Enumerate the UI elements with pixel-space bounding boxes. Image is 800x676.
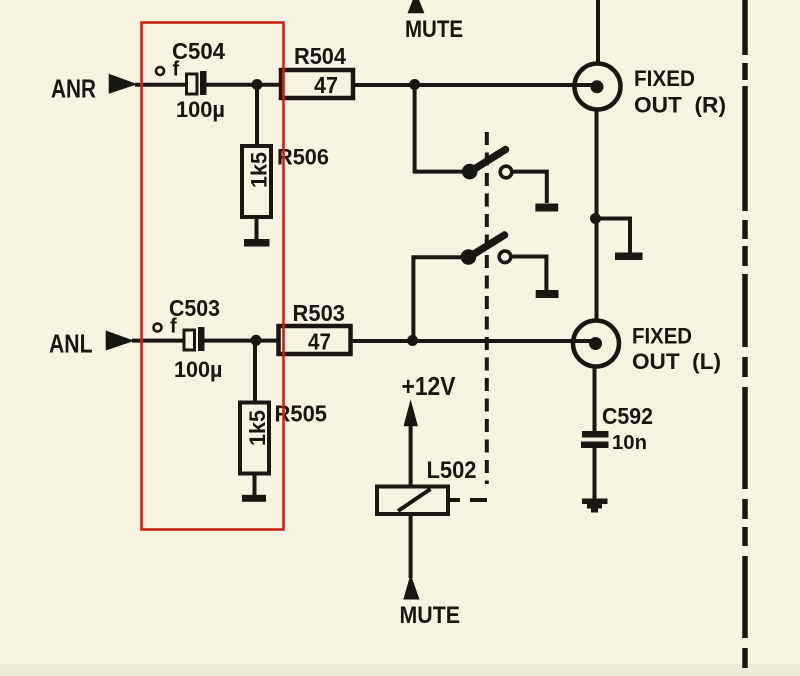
capacitor C503 symbol [184,327,205,351]
input arrow ANL [106,331,135,351]
svg-text:C592: C592 [602,403,653,429]
svg-text:1k5: 1k5 [245,410,270,446]
svg-text:MUTE: MUTE [405,16,463,43]
svg-text:47: 47 [308,329,331,355]
capacitor C504 symbol [187,71,207,95]
resistor R505 body [240,403,269,474]
relay L502 actuator stub [448,498,460,502]
input arrow ANR [109,74,138,94]
ground (S1) [535,204,558,212]
resistor R504 body [281,70,353,98]
wire R505 to ground [253,473,257,496]
svg-text:FIXED: FIXED [634,66,695,91]
wire FIXED OUT (R) down to junction [595,110,599,320]
switch S2 lever [467,235,505,259]
svg-text:OUT (L): OUT (L) [632,349,721,374]
svg-text:MUTE: MUTE [400,602,461,629]
wire junction down to R506 [255,85,259,147]
relay L502 coil body [377,487,448,515]
node junction below MUTE [409,79,420,90]
wire FIXED OUT (L) down to C592 [593,366,597,432]
svg-text:C504: C504 [172,38,225,64]
svg-text:FIXED: FIXED [632,324,692,349]
svg-text:ANR: ANR [51,74,96,104]
switch S1 pivot [462,164,478,180]
relay control dashed line (vertical) [485,132,489,484]
ground (output bus) [615,253,643,261]
wire junction down to switch 1 [413,85,417,172]
svg-text:100µ: 100µ [174,357,223,382]
connector FIXED OUT (L) pin [589,337,602,350]
wire R504 to FIXED OUT (R) [353,83,593,87]
wire relay to MUTE (bottom) [409,514,413,578]
resistor R503 body [279,326,351,354]
wire C504 to R504 [207,83,282,87]
switch S1 lever [468,150,506,174]
polarity ring o [156,67,164,75]
wire ANR arrow to C504 [135,83,187,87]
wire junction to ground branch [596,219,631,254]
net MUTE (bottom): arrow [403,574,419,600]
highlight box (red) around C504/C503 input stage [142,23,284,530]
node junction at C503/R505 [251,335,262,346]
schematic block border (dash-dot vertical line, right) [742,0,748,668]
ground (R505) [242,495,266,502]
switch S2 wire from ANL junction up [411,257,415,340]
wire to switch 2 pivot [411,255,465,259]
connector FIXED OUT (L) ring [573,321,619,367]
svg-text:47: 47 [314,72,338,98]
wire R506 to ground [255,217,259,240]
ground (R506) [244,239,270,247]
connector FIXED OUT (R) pin [591,80,604,93]
switch S1 contact [500,166,512,178]
wire junction down to R505 [253,340,257,403]
wire +12V to relay L502 [409,424,413,487]
wire to switch 1 pivot [413,170,466,174]
svg-text:R503: R503 [293,300,346,326]
net MUTE (top): arrow [408,0,425,13]
resistor R506 body [242,146,271,217]
svg-text:10n: 10n [612,432,647,454]
wire S2 contact to ground [513,257,547,291]
wire top edge to FIXED OUT (R) [596,0,600,63]
switch S2 pivot [461,249,477,265]
relay control dashed line (horizontal to L502) [470,498,487,502]
wire C503 to R503 [205,339,279,343]
wire C592 to ground [593,448,597,499]
ground (S2) [536,290,559,298]
node junction on output bus [590,213,601,224]
node junction at C504/R506 [252,79,263,90]
connector FIXED OUT (R) ring [575,64,621,110]
svg-text:1k5: 1k5 [247,152,272,188]
svg-text:C503: C503 [169,295,220,321]
svg-text:OUT (R): OUT (R) [634,93,726,118]
capacitor C592 symbol [581,431,609,448]
svg-text:100µ: 100µ [176,97,225,122]
switch S2 contact [499,251,511,263]
svg-text:R504: R504 [294,43,346,69]
node junction at switch 2 drop [407,335,418,346]
wire R503 to FIXED OUT (L) [351,339,593,343]
svg-text:L502: L502 [427,457,477,484]
+12V arrow [404,399,419,426]
wire ANL arrow to C503 [132,339,184,343]
wire S1 contact to ground [514,172,547,203]
svg-text:ANL: ANL [49,329,93,359]
svg-text:+12V: +12V [402,373,456,401]
earth ground (C592) [582,499,608,513]
polarity ring o (ANL) [154,324,162,332]
